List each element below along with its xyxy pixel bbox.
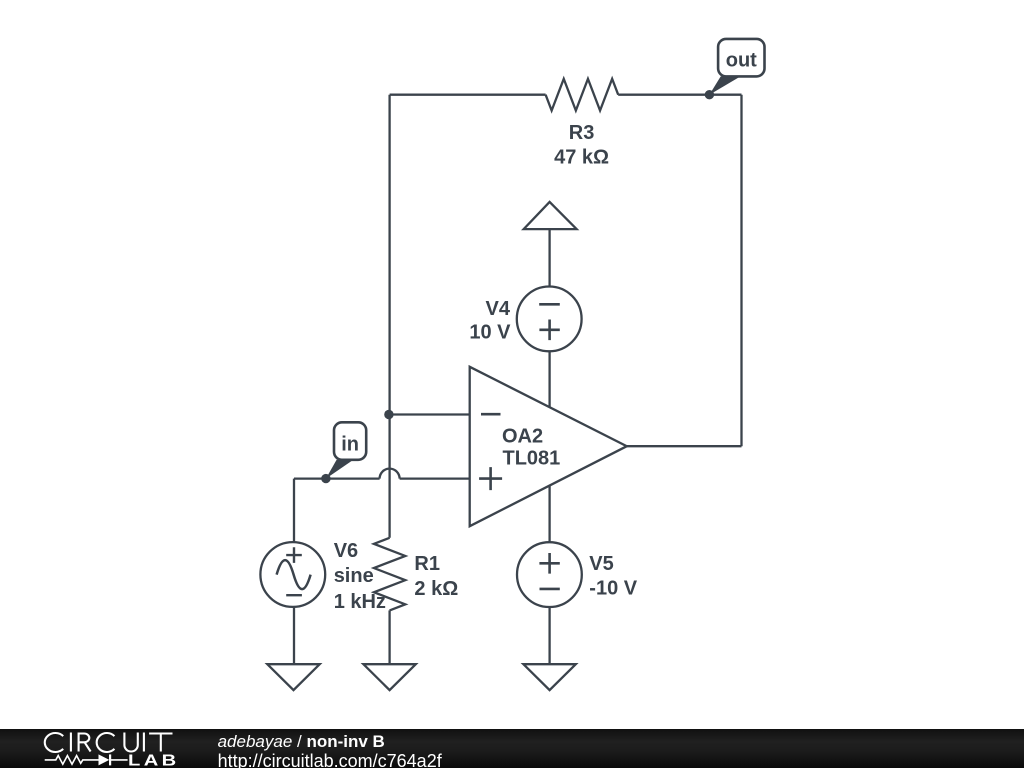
V5 plus sign [539, 553, 559, 574]
svg-text:in: in [341, 434, 359, 456]
V6 minus sign [286, 594, 302, 596]
svg-text:OA2: OA2 [502, 426, 543, 448]
wire R1 bottom to ground [388, 610, 390, 663]
wire op-amp output [627, 445, 742, 447]
op-amp plus input sign [479, 467, 502, 490]
svg-text:out: out [726, 49, 757, 71]
voltage source V5 circle [517, 542, 582, 607]
svg-text:V6: V6 [334, 540, 358, 562]
logo letter U [124, 733, 137, 752]
logo letter C [97, 733, 115, 752]
svg-text:V5: V5 [589, 553, 613, 575]
wire right vertical (output down leg) [740, 95, 742, 447]
logo letter C [45, 733, 63, 752]
footer title text [218, 732, 385, 752]
op-amp minus input sign [481, 413, 501, 416]
wire V5 to ground [548, 607, 550, 663]
flag out box [718, 39, 764, 77]
svg-text:10 V: 10 V [469, 321, 511, 343]
power symbol VCC up triangle [524, 202, 577, 229]
op-amp U1 triangle OA2 [470, 367, 627, 526]
wire V4 to op-amp V+ pin [548, 351, 550, 407]
V5 minus sign [540, 588, 560, 591]
svg-text:LAB: LAB [128, 752, 180, 768]
footer url text [218, 751, 442, 772]
ground symbol under R1 [363, 664, 415, 690]
V6 plus sign [286, 547, 302, 563]
node out junction dot [705, 90, 714, 99]
node in junction dot [321, 474, 330, 483]
ground symbol under V5 [523, 664, 575, 690]
svg-text:V4: V4 [486, 298, 511, 320]
svg-text:R3: R3 [569, 122, 595, 144]
svg-text:TL081: TL081 [503, 448, 561, 470]
wire non-inverting input right segment [400, 477, 470, 479]
voltage source V6 circle (sine) [260, 542, 325, 607]
logo diode glyph [99, 754, 110, 765]
flag in tail [326, 460, 354, 479]
wire VCC triangle to V4 [548, 229, 550, 286]
logo letter R [79, 734, 91, 752]
wire V6 bottom to ground [293, 607, 295, 664]
svg-text:-10 V: -10 V [589, 578, 637, 600]
V6 sine symbol [277, 560, 311, 589]
svg-text:47 kΩ: 47 kΩ [554, 146, 609, 168]
wire op-amp V- pin to V5 [548, 485, 550, 542]
logo letter T [149, 734, 172, 752]
logo letter I [143, 733, 145, 752]
svg-text:sine: sine [334, 565, 374, 587]
flag out tail [709, 76, 740, 94]
node inverting junction dot [384, 410, 393, 419]
ground symbol under V6 [267, 664, 319, 690]
wire hop over R1 wire [380, 469, 400, 479]
svg-text:1 kHz: 1 kHz [334, 591, 386, 613]
footer bar [0, 729, 1024, 768]
V4 minus sign [539, 303, 560, 306]
wire V6 top stem [293, 479, 295, 543]
flag in box [334, 422, 366, 460]
wire top-left vertical (feedback left leg) [388, 95, 390, 415]
resistor R3 [546, 79, 619, 111]
wire top horizontal left lead of R3 [390, 94, 546, 96]
voltage source V4 circle [517, 287, 582, 352]
resistor R1 [374, 538, 405, 611]
svg-text:R1: R1 [414, 553, 440, 575]
logo resistor glyph [45, 756, 99, 765]
wire inverting input [390, 413, 470, 415]
wire left vertical below node to R1 [388, 415, 390, 538]
svg-text:2 kΩ: 2 kΩ [414, 578, 458, 600]
V4 plus sign [539, 320, 559, 341]
wire top horizontal right lead of R3 to out node [618, 94, 741, 96]
wire non-inverting input left segment from V6 [294, 477, 380, 479]
logo letter I [70, 733, 72, 752]
